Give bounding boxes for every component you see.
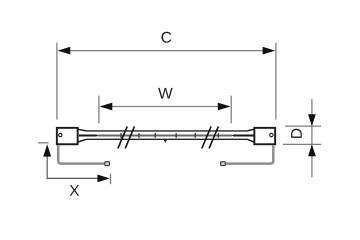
right wire terminal (221, 162, 226, 166)
left wire terminal (105, 162, 110, 166)
filament support 4 (175, 133, 177, 138)
filament support 5 (194, 133, 196, 138)
break mark right line 1 (202, 126, 211, 148)
filament support 2 (138, 133, 140, 138)
dimension C extension line left (56, 43, 58, 120)
dimension D down arrowhead (308, 114, 316, 126)
dimension D bottom reference line (283, 143, 321, 145)
filament support 1 (120, 133, 122, 138)
dimension C arrowhead left (58, 47, 71, 55)
dimension D up arrowhead (308, 145, 316, 157)
dimension D vertical line (311, 99, 313, 177)
dimension X right arrowhead (97, 175, 109, 183)
lamp right lead-in tip (232, 134, 235, 137)
dimension C line (59, 50, 274, 52)
dimension C extension line right (275, 43, 277, 120)
dimension W arrowhead left (100, 103, 113, 111)
dimension X vertical line (46, 146, 48, 178)
dimension W line (101, 106, 229, 108)
dimension X horizontal line (47, 177, 108, 179)
break mark right line 2 (209, 126, 218, 148)
dimension D top reference line (285, 125, 321, 127)
right lead wire (226, 145, 274, 163)
lamp right end cap (254, 128, 275, 144)
label W (158, 88, 173, 99)
dimension W arrowhead right (218, 103, 231, 111)
left lead wire (58, 145, 104, 163)
lamp right pinch taper (247, 129, 254, 142)
lamp left lead-in wire (79, 134, 96, 136)
lamp filament (98, 135, 232, 137)
lamp left lead-in tip (96, 134, 99, 137)
filament support 3 (154, 133, 156, 138)
label D (291, 129, 302, 138)
label C (161, 32, 171, 43)
dimension X top tick (38, 142, 49, 144)
label X (70, 185, 80, 196)
lamp left pinch taper (78, 129, 86, 142)
lamp left cap hole (59, 133, 62, 136)
lamp tube bottom wall (86, 138, 247, 140)
dimension W extension line right (230, 96, 232, 124)
dimension C arrowhead right (263, 47, 276, 55)
dimension X end tick (110, 174, 112, 185)
dimension X up arrowhead (43, 144, 51, 156)
lamp right lead-in wire (234, 134, 254, 136)
lamp right cap hole (270, 133, 273, 136)
filament support 6 (217, 133, 219, 138)
break mark left line 2 (125, 126, 134, 148)
lamp pump tip (163, 139, 167, 143)
lamp left end cap (57, 128, 78, 144)
dimension W extension line left (98, 96, 100, 124)
break mark left line 1 (118, 126, 127, 148)
lamp tube top wall (86, 130, 247, 132)
